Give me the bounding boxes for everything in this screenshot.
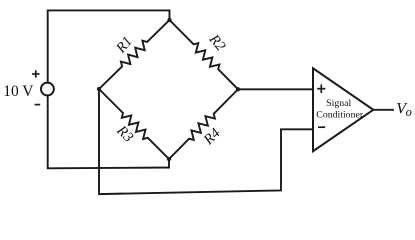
svg-text:R2: R2	[205, 31, 228, 54]
svg-text:Conditioner: Conditioner	[316, 110, 364, 121]
svg-text:R4: R4	[200, 125, 223, 148]
svg-text:Signal: Signal	[326, 98, 351, 109]
svg-text:R3: R3	[113, 122, 136, 145]
svg-text:o: o	[406, 105, 412, 119]
svg-text:10 V: 10 V	[3, 83, 34, 100]
svg-text:R1: R1	[112, 34, 135, 57]
